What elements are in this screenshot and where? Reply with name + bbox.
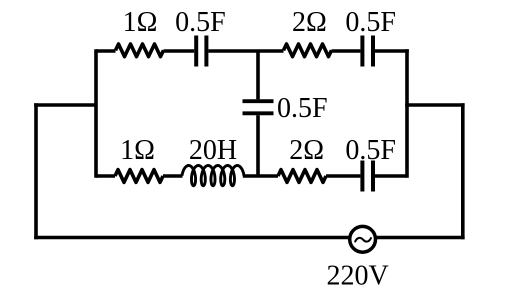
svg-text:2Ω: 2Ω: [292, 7, 327, 38]
capacitor 0.5F middle: [243, 101, 274, 113]
svg-text:20H: 20H: [189, 135, 237, 166]
svg-text:0.5F: 0.5F: [277, 93, 328, 124]
capacitor 0.5F top-left: [196, 36, 206, 67]
svg-text:1Ω: 1Ω: [120, 135, 155, 166]
svg-text:0.5F: 0.5F: [345, 135, 396, 166]
wire between bottom-right resistor and capacitor: [326, 174, 360, 178]
wire between bottom resistor and inductor: [163, 174, 183, 178]
wire top-left stub: [96, 49, 116, 53]
wire center vertical lower: [256, 115, 260, 176]
resistor 2ohm bottom: [278, 170, 326, 183]
wire outer-right vertical: [461, 103, 465, 239]
wire bottom-middle left stub: [96, 174, 115, 178]
svg-text:0.5F: 0.5F: [345, 7, 396, 38]
wire inner-left vertical: [94, 49, 98, 178]
wire right step: [405, 103, 464, 107]
svg-text:0.5F: 0.5F: [175, 7, 226, 38]
ac source 220V circle: [350, 226, 376, 252]
resistor 1ohm bottom: [115, 170, 163, 183]
ac source sine symbol: [355, 238, 371, 242]
wire top-right stub: [375, 49, 409, 53]
resistor 2ohm top-right: [284, 44, 332, 57]
svg-text:2Ω: 2Ω: [289, 135, 324, 166]
wire between inductor and bottom-right resistor: [243, 174, 278, 178]
capacitor 0.5F bottom-right: [362, 161, 373, 192]
wire between top-right resistor and capacitor: [332, 49, 361, 53]
wire outer-left vertical: [34, 103, 38, 239]
svg-text:220V: 220V: [326, 261, 388, 292]
svg-text:1Ω: 1Ω: [123, 7, 158, 38]
wire bottom right run: [376, 236, 465, 240]
wire left step: [34, 103, 96, 107]
wire bottom-middle right stub: [375, 174, 407, 178]
wire inner-right vertical: [405, 49, 409, 178]
wire between top-left resistor and capacitor: [164, 49, 195, 53]
capacitor 0.5F top-right: [362, 36, 373, 67]
resistor 1ohm top-left: [116, 44, 164, 57]
wire center vertical upper: [256, 51, 260, 99]
wire top-middle (node to top-right resistor): [208, 49, 283, 53]
wire bottom left run: [34, 236, 350, 240]
inductor 20H: [182, 166, 244, 186]
